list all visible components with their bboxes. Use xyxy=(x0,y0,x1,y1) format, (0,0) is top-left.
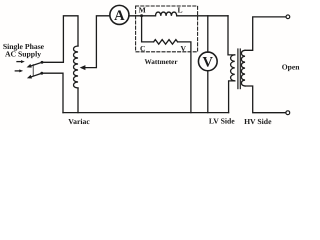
HV bottom lead to open terminal xyxy=(245,86,286,113)
svg-text:HV Side: HV Side xyxy=(244,117,272,126)
wire: variac bottom to bus xyxy=(77,88,79,113)
svg-text:V: V xyxy=(203,54,214,70)
open terminal top xyxy=(286,15,290,19)
wattmeter dashed box xyxy=(136,6,198,52)
svg-text:C: C xyxy=(140,44,145,53)
voltmeter V xyxy=(198,52,217,71)
svg-text:V: V xyxy=(180,44,186,53)
bottom bus wire xyxy=(63,112,229,114)
svg-text:LV Side: LV Side xyxy=(209,117,235,126)
wire: coil L to LV top xyxy=(177,15,228,17)
transformer LV winding xyxy=(231,55,235,81)
transformer core xyxy=(238,49,240,89)
wattmeter pressure branch wire xyxy=(142,16,154,42)
pressure coil resistor xyxy=(154,40,178,45)
svg-text:M: M xyxy=(139,6,146,15)
label: Single Phase AC Supply xyxy=(3,42,45,59)
switch pivot dot 2 xyxy=(40,72,43,75)
junction dot M xyxy=(140,14,143,17)
supply terminal arrow L2 xyxy=(15,69,23,72)
ammeter A xyxy=(110,5,129,24)
svg-text:Wattmeter: Wattmeter xyxy=(144,58,178,66)
supply terminal arrow L1 xyxy=(17,60,25,63)
wire: pole1 to variac top bridge xyxy=(42,16,78,63)
wattmeter current coil xyxy=(156,12,177,16)
wire: pole2 down to bottom bus xyxy=(42,73,63,112)
switch linkage xyxy=(32,65,34,76)
open terminal bottom xyxy=(286,111,290,115)
wire: resistor V terminal down to bus xyxy=(178,42,191,113)
transformer LV bottom lead xyxy=(229,81,235,113)
svg-text:Variac: Variac xyxy=(68,117,90,126)
svg-text:L: L xyxy=(177,6,182,15)
transformer HV winding xyxy=(241,50,245,86)
wire: voltmeter top branch xyxy=(207,16,209,52)
switch blade 2 xyxy=(27,73,42,78)
wire: ammeter to wattmeter M xyxy=(129,15,156,17)
switch blade 1 xyxy=(27,62,42,67)
HV top lead to open terminal xyxy=(245,17,286,50)
svg-text:AC Supply: AC Supply xyxy=(5,49,41,58)
svg-text:Open: Open xyxy=(282,62,300,71)
svg-text:A: A xyxy=(114,8,125,24)
variac wiper arrow xyxy=(80,16,110,70)
variac winding xyxy=(74,46,79,88)
switch pivot dot 1 xyxy=(41,61,44,64)
transformer LV winding lead xyxy=(228,16,235,55)
wire: voltmeter bottom branch xyxy=(207,71,209,113)
